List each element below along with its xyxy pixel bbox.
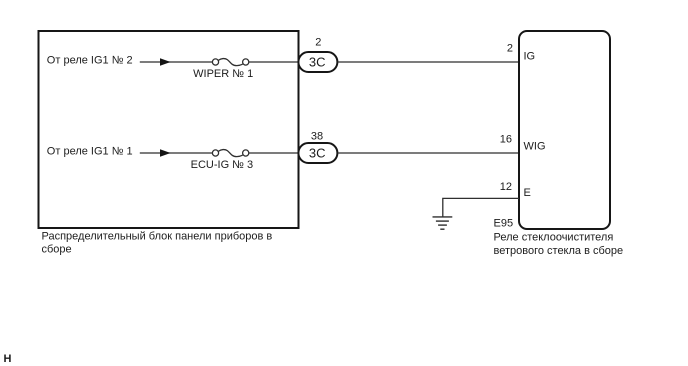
wire fuse WIPER to connector 3C: [249, 61, 298, 63]
ground: [433, 217, 453, 229]
wire connector 3C to relay pin IG: [337, 61, 519, 63]
svg-text:От реле IG1 № 2: От реле IG1 № 2: [47, 54, 133, 66]
svg-text:Реле стеклоочистителя: Реле стеклоочистителя: [494, 232, 614, 244]
svg-text:От реле IG1 № 1: От реле IG1 № 1: [47, 145, 133, 157]
fuse ECU-IG № 3: [212, 150, 248, 157]
arrow row2: [160, 149, 171, 157]
svg-text:WIG: WIG: [524, 141, 546, 153]
svg-text:2: 2: [315, 36, 321, 48]
wire connector 3C to relay pin WIG: [337, 152, 519, 154]
connector 3C (row2): [298, 143, 337, 163]
svg-text:12: 12: [500, 181, 512, 193]
svg-text:3C: 3C: [309, 55, 326, 70]
fuse WIPER № 1: [212, 59, 248, 66]
svg-text:IG: IG: [524, 50, 536, 62]
svg-text:сборе: сборе: [42, 244, 72, 256]
junction block box (Распределительный блок панели приборов): [39, 31, 299, 228]
svg-text:Распределительный блок панели: Распределительный блок панели приборов в: [42, 231, 273, 243]
arrow row1: [160, 58, 171, 66]
wire row1 (IG1 №2 to fuse WIPER): [140, 61, 213, 63]
wiper relay box E95: [519, 31, 610, 229]
svg-text:2: 2: [507, 43, 513, 55]
svg-text:WIPER № 1: WIPER № 1: [193, 68, 253, 80]
svg-text:H: H: [4, 353, 12, 365]
svg-text:3C: 3C: [309, 146, 326, 161]
connector 3C (row1): [298, 52, 337, 72]
relay caption: [494, 232, 624, 257]
svg-text:38: 38: [311, 131, 323, 143]
junction block caption: [42, 231, 273, 256]
svg-text:ветрового стекла в сборе: ветрового стекла в сборе: [494, 245, 624, 257]
svg-text:ECU-IG № 3: ECU-IG № 3: [191, 159, 254, 171]
svg-text:E: E: [524, 187, 531, 199]
wire fuse ECU-IG to connector 3C: [249, 152, 298, 154]
svg-text:16: 16: [500, 134, 512, 146]
wire row2 (IG1 №1 to fuse ECU-IG): [140, 152, 213, 154]
svg-text:E95: E95: [494, 218, 514, 230]
wire relay pin E to ground: [443, 198, 519, 217]
